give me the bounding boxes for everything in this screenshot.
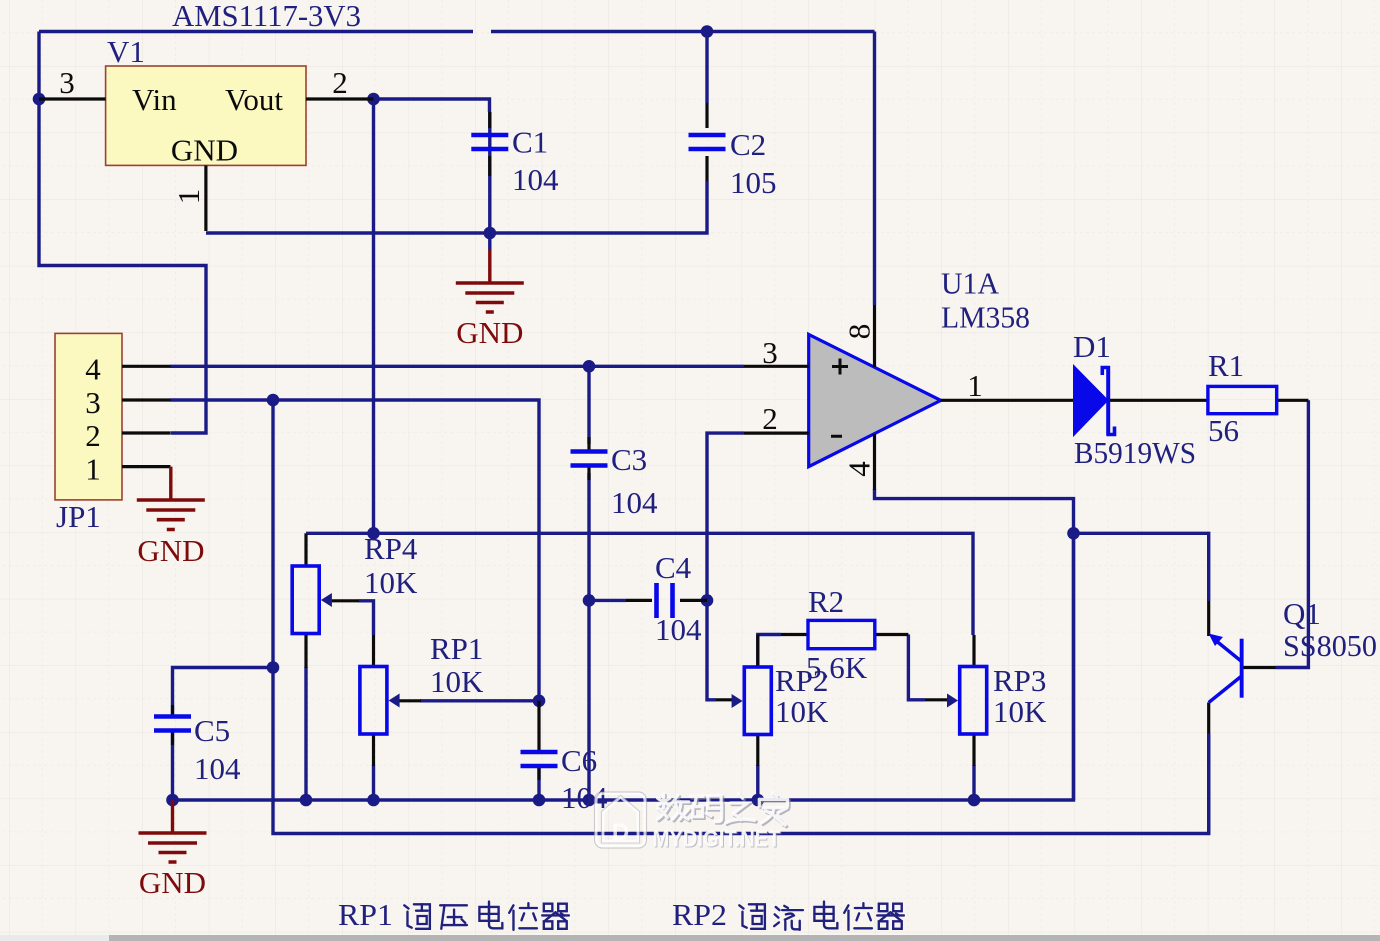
svg-text:5.6K: 5.6K bbox=[806, 650, 868, 685]
wire op-amp pin4 to output node rail bbox=[875, 489, 1074, 800]
capacitor C1 104 bbox=[488, 112, 491, 128]
wire RP1 wiper to C6 node bbox=[420, 699, 539, 702]
node Vout rail join 533 rail bbox=[367, 527, 380, 540]
potentiometer RP1 10K bbox=[372, 635, 375, 667]
wire C5 bottom to bus bbox=[171, 729, 174, 800]
node bus junction C6 bbox=[533, 794, 546, 807]
wire C4 left lead bbox=[589, 599, 626, 602]
node RP1 wiper C6 junction bbox=[533, 695, 546, 708]
svg-text:Vout: Vout bbox=[225, 82, 283, 117]
node bus junction RP4 bbox=[300, 794, 313, 807]
transistor Q1 SS8050 bbox=[1207, 601, 1210, 636]
wire R2 right to RP3 wiper bbox=[908, 635, 925, 700]
svg-text:R2: R2 bbox=[808, 584, 844, 619]
node top rail C2 junction bbox=[701, 25, 714, 38]
svg-text:U1A: U1A bbox=[941, 266, 1000, 301]
svg-text:JP1: JP1 bbox=[56, 499, 101, 534]
svg-text:1: 1 bbox=[171, 189, 206, 205]
pin 4 of U1A bbox=[873, 434, 876, 490]
svg-text:C1: C1 bbox=[512, 125, 548, 160]
wire RP4 bottom to bus bbox=[304, 667, 307, 800]
svg-text:D: D bbox=[612, 819, 629, 846]
svg-text:2: 2 bbox=[332, 65, 348, 100]
node C3 C4 junction bbox=[583, 594, 596, 607]
svg-text:RP3: RP3 bbox=[993, 663, 1046, 698]
wire to Q1 collector bbox=[1074, 533, 1209, 601]
ground below C5 bbox=[171, 800, 174, 833]
svg-text:MYDIGIT.NET: MYDIGIT.NET bbox=[653, 826, 781, 852]
svg-text:SS8050: SS8050 bbox=[1283, 628, 1377, 663]
svg-text:V1: V1 bbox=[107, 34, 145, 69]
pin 1 of JP1 bbox=[122, 465, 171, 468]
wire C4 right to op-amp -input and RP2 wiper bbox=[707, 433, 744, 700]
pin 1 of U1A bbox=[941, 399, 1074, 402]
node bus junction C5 bbox=[166, 794, 179, 807]
node C4 right junction bbox=[701, 594, 714, 607]
svg-text:GND: GND bbox=[171, 133, 238, 168]
wire RP4 wiper to RP1 top bbox=[359, 601, 374, 635]
capacitor C2 105 bbox=[705, 103, 708, 128]
svg-text:4: 4 bbox=[85, 351, 101, 386]
svg-text:2: 2 bbox=[85, 418, 101, 453]
wire JP1 pin3 net to RP1 wiper / C6 bbox=[170, 400, 539, 701]
svg-text:C3: C3 bbox=[611, 442, 647, 477]
capacitor C4 104 (horizontal) bbox=[626, 599, 652, 602]
svg-text:10K: 10K bbox=[364, 565, 418, 600]
pin 3 of V1 bbox=[39, 97, 106, 100]
pin 8 of U1A bbox=[873, 305, 876, 367]
svg-text:1: 1 bbox=[967, 368, 983, 403]
node output feedback junction bbox=[1067, 527, 1080, 540]
wire rail corner down to op-amp pin8 bbox=[873, 32, 876, 306]
regulator V1 AMS1117-3V3 body bbox=[106, 66, 306, 165]
svg-text:GND: GND bbox=[139, 865, 206, 900]
wire RP2 bottom to bus bbox=[756, 765, 759, 800]
node bus junction RP2 bbox=[752, 794, 765, 807]
svg-text:RP2: RP2 bbox=[672, 897, 727, 932]
ground below C1 bbox=[488, 250, 491, 283]
node C3 top junction bbox=[583, 360, 596, 373]
pin 2 of U1A bbox=[744, 432, 809, 435]
pin 2 of JP1 bbox=[122, 431, 171, 434]
svg-text:104: 104 bbox=[512, 162, 559, 197]
svg-text:C5: C5 bbox=[194, 713, 230, 748]
node Vin input junction bbox=[33, 93, 46, 106]
svg-text:C6: C6 bbox=[561, 743, 597, 778]
svg-text:AMS1117-3V3: AMS1117-3V3 bbox=[172, 0, 361, 33]
svg-text:3: 3 bbox=[59, 65, 75, 100]
node bus junction RP1 bbox=[367, 794, 380, 807]
svg-text:105: 105 bbox=[730, 165, 777, 200]
svg-text:1: 1 bbox=[85, 452, 101, 487]
diode D1 B5919WS (schottky) bbox=[1074, 367, 1107, 435]
svg-text:C2: C2 bbox=[730, 127, 766, 162]
resistor R1 56 bbox=[1110, 399, 1208, 402]
wire R1 right down to Q1 base bbox=[1276, 400, 1309, 667]
watermark logo bbox=[595, 792, 647, 848]
svg-text:56: 56 bbox=[1208, 413, 1239, 448]
capacitor C3 104 bbox=[587, 437, 590, 452]
capacitor C6 104 bbox=[537, 701, 540, 752]
svg-text:4: 4 bbox=[842, 461, 877, 477]
svg-text:RP1: RP1 bbox=[430, 631, 483, 666]
svg-text:D1: D1 bbox=[1073, 329, 1111, 364]
connector JP1 body bbox=[55, 333, 122, 500]
node C1 bottom junction bbox=[484, 227, 497, 240]
svg-text:8: 8 bbox=[842, 324, 877, 340]
svg-text:10K: 10K bbox=[775, 694, 829, 729]
wire C5 branch bbox=[173, 668, 274, 716]
svg-text:104: 104 bbox=[561, 780, 608, 815]
wire C3 vertical bbox=[587, 366, 590, 800]
wire top 3V3 rail bbox=[39, 30, 875, 33]
wire RP1 bottom to bus bbox=[372, 765, 375, 800]
node Vout junction bbox=[367, 93, 380, 106]
wire Q1 emitter lower bbox=[1207, 734, 1210, 834]
svg-text:Vin: Vin bbox=[132, 82, 177, 117]
svg-text:RP4: RP4 bbox=[364, 531, 418, 566]
scrollbar bbox=[0, 935, 1380, 941]
wire left input drop to JP1 pin2 bbox=[39, 32, 206, 434]
svg-text:10K: 10K bbox=[430, 664, 484, 699]
wire JP1 pin4 net to op-amp +input bbox=[170, 365, 744, 368]
pin 3 of U1A bbox=[744, 365, 809, 368]
svg-text:C4: C4 bbox=[655, 550, 692, 585]
svg-text:104: 104 bbox=[655, 612, 702, 647]
node bus junction C3C4 bbox=[583, 794, 596, 807]
pin 3 of JP1 bbox=[122, 398, 171, 401]
wire RP2 top to R2 bbox=[758, 635, 781, 668]
wire ground bus bbox=[173, 533, 1074, 800]
potentiometer RP4 10K bbox=[304, 534, 307, 566]
capacitor C5 104 bbox=[171, 705, 174, 716]
wire C2 branch from top rail bbox=[705, 32, 708, 104]
svg-text:3: 3 bbox=[762, 335, 778, 370]
pin 1 of V1 (GND) bbox=[204, 165, 207, 231]
svg-text:104: 104 bbox=[194, 751, 241, 786]
svg-text:R1: R1 bbox=[1208, 348, 1244, 383]
node pin3 net junction bbox=[267, 394, 280, 407]
node bus junction RP3 bbox=[968, 794, 981, 807]
svg-text:10K: 10K bbox=[993, 694, 1047, 729]
svg-text:Q1: Q1 bbox=[1283, 596, 1321, 631]
wire GND rail under V1 bbox=[206, 112, 707, 250]
wire Vout rail down bbox=[374, 99, 490, 533]
resistor R2 5.6K bbox=[781, 633, 808, 636]
potentiometer RP2 10K bbox=[756, 635, 759, 668]
wire C6 bottom to bus bbox=[537, 766, 540, 801]
svg-text:B5919WS: B5919WS bbox=[1074, 435, 1196, 470]
svg-text:104: 104 bbox=[611, 485, 658, 520]
wire RP4 top from 533 rail bbox=[306, 533, 973, 635]
svg-text:3: 3 bbox=[85, 385, 101, 420]
svg-text:GND: GND bbox=[137, 533, 204, 568]
pin 4 of JP1 bbox=[122, 365, 171, 368]
wire RP3 bottom to bus bbox=[972, 765, 975, 800]
svg-text:2: 2 bbox=[762, 401, 778, 436]
watermark text bbox=[659, 794, 789, 826]
potentiometer RP3 10K bbox=[972, 635, 975, 667]
ground at JP1 pin1 bbox=[169, 467, 172, 500]
svg-text:GND: GND bbox=[456, 315, 523, 350]
svg-text:RP1: RP1 bbox=[338, 897, 393, 932]
op-amp U1A LM358 bbox=[809, 334, 941, 466]
svg-text:LM358: LM358 bbox=[941, 300, 1030, 335]
node C5 branch junction bbox=[267, 661, 280, 674]
wire x273 vertical to lower bus and Q1 emitter bbox=[273, 400, 1209, 834]
pin 2 of V1 bbox=[306, 97, 374, 100]
